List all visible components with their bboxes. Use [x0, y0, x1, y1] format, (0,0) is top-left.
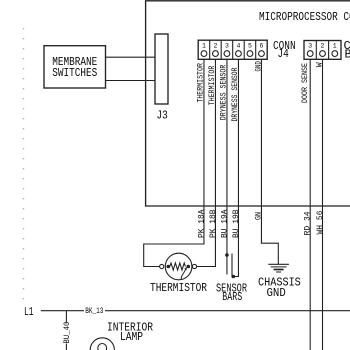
svg-text:BU_19B: BU_19B: [231, 210, 241, 239]
wire WH_56: connB-2, down off page: [315, 59, 325, 350]
svg-text:THERMISTOR: THERMISTOR: [150, 281, 207, 295]
svg-text:4: 4: [237, 43, 241, 50]
svg-text:3: 3: [225, 43, 229, 50]
resistor zigzag: [170, 263, 186, 270]
wire label BK_13: [84, 306, 105, 316]
svg-text:3: 3: [308, 43, 312, 50]
left terminal: [160, 264, 164, 268]
label CONN B (clipped at edge): [344, 39, 350, 62]
svg-text:1: 1: [333, 43, 337, 50]
svg-text:LAMP: LAMP: [120, 330, 143, 344]
label CONN J4: [273, 39, 296, 61]
svg-text:6: 6: [260, 43, 264, 50]
svg-text:RD_34: RD_34: [303, 211, 313, 235]
J4 pin 5: [247, 43, 253, 57]
wire PK_18B: J4-2 to thermistor right: [197, 59, 218, 266]
junction dot on sensor bar A: [225, 253, 229, 257]
chassis ground symbol: [268, 264, 289, 272]
connector J3: [155, 34, 168, 104]
wire membrane to J3 (lower): [106, 80, 156, 82]
wire PK_18A: J4-1 to thermistor left: [144, 59, 207, 266]
svg-text:BK_13: BK_13: [85, 306, 103, 316]
connector B body: [304, 41, 341, 60]
interior lamp symbol (clipped at bottom): [90, 338, 114, 350]
junction dot on sensor bar B: [232, 275, 236, 279]
connector J4 body: [198, 40, 267, 59]
svg-text:5: 5: [248, 43, 252, 50]
svg-text:WH_56: WH_56: [315, 211, 325, 235]
J4 pin 2: [213, 43, 219, 57]
svg-text:DOOR SENSE: DOOR SENSE: [301, 63, 310, 103]
label INTERIOR LAMP: [107, 321, 153, 345]
conn B pin 3: [307, 43, 313, 57]
svg-text:PK_18B: PK_18B: [208, 210, 218, 239]
svg-text:1: 1: [202, 43, 206, 50]
svg-text:GND: GND: [267, 286, 286, 300]
node dot left: [167, 265, 171, 269]
svg-text:BU_40: BU_40: [62, 322, 72, 344]
J4 pin 4: [236, 43, 242, 57]
microprocessor control board outline: [146, 1, 350, 206]
svg-text:J3: J3: [157, 108, 168, 122]
wire GN: J4-6 to chassis ground: [254, 59, 279, 264]
wire BU_19A: J4-3 to sensor bar: [219, 59, 229, 274]
thermistor arrow: [180, 276, 183, 280]
conn B pin 2: [320, 43, 326, 57]
svg-text:J4: J4: [278, 47, 289, 61]
svg-text:W: W: [316, 62, 325, 67]
wire BU_40 to interior lamp: [62, 311, 72, 350]
svg-text:B8: B8: [345, 48, 350, 62]
svg-text:2: 2: [321, 43, 325, 50]
J4 pin 1: [201, 43, 207, 57]
label SENSOR BARS: [216, 282, 247, 305]
svg-text:PK_18A: PK_18A: [196, 209, 206, 238]
wire BU_19B: J4-4 to sensor bar: [231, 59, 241, 276]
svg-text:SWITCHES: SWITCHES: [52, 66, 97, 80]
node dot right: [187, 265, 191, 269]
dashed page border (left): [23, 28, 25, 308]
svg-text:MICROPROCESSOR CO: MICROPROCESSOR CO: [259, 10, 350, 24]
svg-text:2: 2: [214, 43, 218, 50]
J4 pin 3: [224, 43, 230, 57]
thermistor RT1: [160, 253, 197, 280]
svg-text:BARS: BARS: [222, 290, 242, 304]
conn B pin 1: [332, 43, 338, 57]
L1 power rail: [24, 305, 350, 319]
J4 pin 6: [259, 43, 265, 57]
svg-text:BU_19A: BU_19A: [219, 209, 229, 238]
label CHASSIS GND: [258, 276, 301, 300]
right terminal: [192, 264, 196, 268]
wire membrane to J3 (upper): [106, 56, 156, 58]
svg-text:L1: L1: [24, 305, 34, 319]
svg-text:GN_: GN_: [254, 207, 264, 220]
membrane switches block: [44, 46, 106, 88]
wire RD_34: connB-3 door sense, down off page: [303, 59, 313, 350]
